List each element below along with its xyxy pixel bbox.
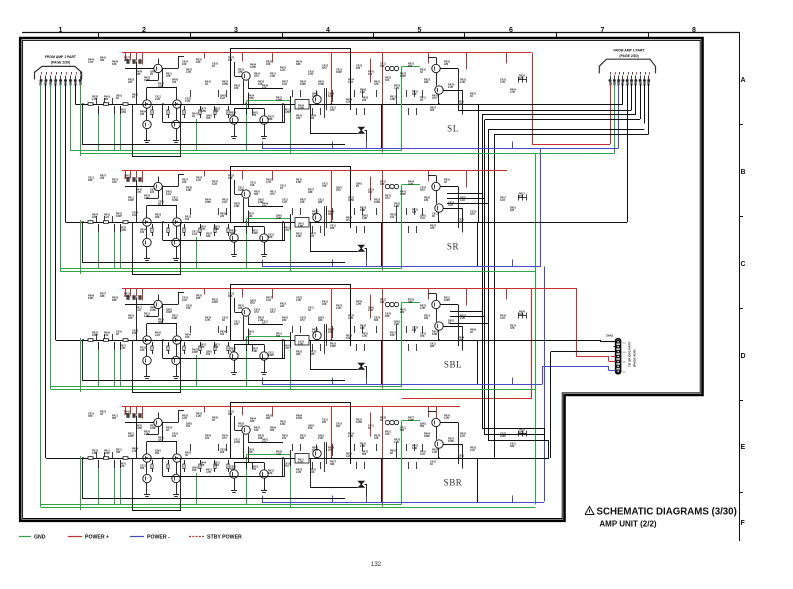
svg-text:1K: 1K bbox=[420, 71, 423, 74]
svg-text:33K: 33K bbox=[136, 73, 141, 76]
svg-text:47K: 47K bbox=[330, 109, 335, 112]
svg-text:1K: 1K bbox=[166, 429, 169, 432]
svg-text:47K: 47K bbox=[519, 77, 524, 80]
svg-text:3: 3 bbox=[234, 27, 238, 34]
svg-text:1K: 1K bbox=[248, 333, 251, 336]
svg-text:0.22: 0.22 bbox=[132, 214, 137, 217]
svg-text:220: 220 bbox=[424, 199, 429, 202]
svg-text:100P: 100P bbox=[424, 435, 430, 438]
svg-text:10K: 10K bbox=[186, 307, 191, 310]
svg-text:1K: 1K bbox=[222, 319, 225, 322]
svg-text:100: 100 bbox=[228, 59, 233, 62]
svg-text:6.8K: 6.8K bbox=[88, 297, 93, 300]
svg-text:10K: 10K bbox=[458, 103, 463, 106]
svg-text:100: 100 bbox=[262, 205, 267, 208]
svg-text:33K: 33K bbox=[519, 313, 524, 316]
svg-text:220: 220 bbox=[220, 215, 225, 218]
svg-text:33K: 33K bbox=[206, 235, 211, 238]
svg-text:1/2W: 1/2W bbox=[374, 201, 380, 204]
svg-text:33K: 33K bbox=[380, 183, 385, 186]
svg-text:47K: 47K bbox=[200, 464, 205, 467]
svg-text:4.7K: 4.7K bbox=[186, 71, 191, 74]
svg-text:47U: 47U bbox=[346, 219, 351, 222]
svg-text:CN602: CN602 bbox=[606, 335, 614, 337]
svg-text:100: 100 bbox=[282, 437, 287, 440]
svg-text:4.7K: 4.7K bbox=[182, 417, 187, 420]
svg-text:10K: 10K bbox=[385, 433, 390, 436]
svg-text:47U: 47U bbox=[270, 311, 275, 314]
svg-text:100: 100 bbox=[140, 231, 145, 234]
svg-text:560: 560 bbox=[112, 417, 117, 420]
svg-text:100P: 100P bbox=[212, 301, 218, 304]
svg-text:4.7K: 4.7K bbox=[282, 201, 287, 204]
svg-text:0.22: 0.22 bbox=[280, 69, 285, 72]
svg-text:47U: 47U bbox=[158, 439, 163, 442]
svg-text:SBR: SBR bbox=[444, 478, 463, 488]
svg-text:220: 220 bbox=[228, 413, 233, 416]
svg-text:0.22: 0.22 bbox=[238, 425, 243, 428]
svg-text:4.7K: 4.7K bbox=[185, 100, 190, 103]
svg-text:6.8K: 6.8K bbox=[412, 447, 417, 450]
svg-text:1K: 1K bbox=[158, 203, 161, 206]
svg-text:1K: 1K bbox=[150, 73, 153, 76]
svg-text:1/2W: 1/2W bbox=[298, 107, 304, 110]
svg-text:D: D bbox=[741, 353, 746, 360]
svg-text:1/2W: 1/2W bbox=[200, 110, 206, 113]
svg-text:1/2W: 1/2W bbox=[356, 421, 362, 424]
svg-text:100: 100 bbox=[385, 79, 390, 82]
svg-text:560: 560 bbox=[276, 335, 281, 338]
svg-text:33K: 33K bbox=[296, 353, 301, 356]
svg-text:33K: 33K bbox=[424, 81, 429, 84]
svg-text:220: 220 bbox=[124, 59, 129, 62]
svg-text:2.2K: 2.2K bbox=[368, 309, 373, 312]
svg-text:0.22: 0.22 bbox=[500, 199, 505, 202]
svg-text:33K: 33K bbox=[458, 339, 463, 342]
svg-text:F: F bbox=[741, 520, 746, 527]
svg-text:33K: 33K bbox=[230, 468, 235, 471]
svg-text:33K: 33K bbox=[250, 420, 255, 423]
svg-text:4.7K: 4.7K bbox=[200, 228, 205, 231]
svg-text:10K: 10K bbox=[308, 427, 313, 430]
svg-text:33K: 33K bbox=[330, 227, 335, 230]
svg-text:100: 100 bbox=[312, 331, 317, 334]
svg-text:6.8K: 6.8K bbox=[92, 452, 97, 455]
svg-text:1K: 1K bbox=[116, 97, 119, 100]
svg-text:100P: 100P bbox=[336, 71, 342, 74]
svg-text:33K: 33K bbox=[268, 118, 273, 121]
svg-text:560: 560 bbox=[104, 98, 109, 101]
svg-text:47K: 47K bbox=[238, 71, 243, 74]
svg-text:10K: 10K bbox=[120, 465, 125, 468]
svg-text:4.7K: 4.7K bbox=[136, 191, 141, 194]
svg-text:4.7K: 4.7K bbox=[284, 347, 289, 350]
svg-text:10K: 10K bbox=[185, 336, 190, 339]
svg-text:0.22: 0.22 bbox=[460, 199, 465, 202]
svg-text:2.2K: 2.2K bbox=[196, 415, 201, 418]
svg-text:100: 100 bbox=[214, 346, 219, 349]
svg-text:1K: 1K bbox=[280, 187, 283, 190]
svg-text:FROM AMP 1 PART: FROM AMP 1 PART bbox=[45, 55, 77, 59]
svg-text:1K: 1K bbox=[432, 215, 435, 218]
svg-text:4.7K: 4.7K bbox=[88, 61, 93, 64]
svg-text:47K: 47K bbox=[374, 83, 379, 86]
svg-text:100: 100 bbox=[310, 235, 315, 238]
svg-text:6.8K: 6.8K bbox=[328, 95, 333, 98]
svg-text:10K: 10K bbox=[380, 65, 385, 68]
svg-text:10K: 10K bbox=[104, 334, 109, 337]
svg-text:33K: 33K bbox=[196, 297, 201, 300]
svg-text:SBL: SBL bbox=[444, 360, 462, 370]
svg-text:POWER -: POWER - bbox=[147, 535, 170, 541]
svg-text:1/2W: 1/2W bbox=[222, 83, 228, 86]
svg-text:560: 560 bbox=[362, 453, 367, 456]
svg-text:220: 220 bbox=[400, 311, 405, 314]
svg-text:0.22: 0.22 bbox=[420, 453, 425, 456]
svg-text:1K: 1K bbox=[390, 452, 393, 455]
svg-text:220: 220 bbox=[362, 99, 367, 102]
svg-text:FROM AMP 1 PART: FROM AMP 1 PART bbox=[613, 48, 645, 52]
svg-text:10K: 10K bbox=[250, 184, 255, 187]
svg-text:2.2K: 2.2K bbox=[132, 450, 137, 453]
svg-text:220: 220 bbox=[220, 451, 225, 454]
svg-text:220: 220 bbox=[140, 113, 145, 116]
svg-text:1/2W: 1/2W bbox=[250, 66, 256, 69]
svg-text:560: 560 bbox=[270, 429, 275, 432]
svg-text:47U: 47U bbox=[254, 75, 259, 78]
svg-text:1/2W: 1/2W bbox=[348, 199, 354, 202]
svg-text:33K: 33K bbox=[380, 301, 385, 304]
svg-text:4.7K: 4.7K bbox=[356, 303, 361, 306]
svg-text:560: 560 bbox=[230, 232, 235, 235]
svg-text:10K: 10K bbox=[112, 63, 117, 66]
svg-text:10K: 10K bbox=[140, 349, 145, 352]
svg-text:47K: 47K bbox=[234, 323, 239, 326]
svg-text:0.22: 0.22 bbox=[136, 309, 141, 312]
svg-text:2.2K: 2.2K bbox=[92, 98, 97, 101]
svg-text:2.2K: 2.2K bbox=[336, 307, 341, 310]
svg-text:6.8K: 6.8K bbox=[298, 225, 303, 228]
svg-text:560: 560 bbox=[336, 425, 341, 428]
svg-text:100P: 100P bbox=[448, 440, 454, 443]
svg-text:33K: 33K bbox=[330, 463, 335, 466]
svg-text:0.22: 0.22 bbox=[420, 217, 425, 220]
svg-text:47U: 47U bbox=[385, 197, 390, 200]
svg-text:560: 560 bbox=[400, 429, 405, 432]
svg-text:1: 1 bbox=[59, 27, 63, 34]
svg-text:100P: 100P bbox=[252, 232, 258, 235]
svg-text:560: 560 bbox=[430, 109, 435, 112]
svg-text:10K: 10K bbox=[234, 87, 239, 90]
svg-text:47K: 47K bbox=[300, 201, 305, 204]
svg-text:0.22: 0.22 bbox=[166, 193, 171, 196]
svg-text:C: C bbox=[741, 261, 746, 268]
svg-text:0.22: 0.22 bbox=[460, 435, 465, 438]
svg-text:10K: 10K bbox=[206, 117, 211, 120]
svg-text:A: A bbox=[741, 77, 746, 84]
svg-text:10K: 10K bbox=[322, 303, 327, 306]
svg-text:0.22: 0.22 bbox=[158, 85, 163, 88]
svg-text:2.2K: 2.2K bbox=[276, 217, 281, 220]
svg-text:47K: 47K bbox=[296, 117, 301, 120]
svg-text:560: 560 bbox=[310, 117, 315, 120]
svg-text:0.22: 0.22 bbox=[212, 183, 217, 186]
svg-text:47K: 47K bbox=[88, 415, 93, 418]
svg-text:47U: 47U bbox=[124, 413, 129, 416]
svg-text:7: 7 bbox=[601, 27, 605, 34]
svg-text:560: 560 bbox=[408, 65, 413, 68]
svg-text:560: 560 bbox=[254, 193, 259, 196]
svg-text:132: 132 bbox=[371, 562, 382, 568]
svg-text:0.22: 0.22 bbox=[222, 201, 227, 204]
svg-text:100: 100 bbox=[368, 73, 373, 76]
svg-text:10K: 10K bbox=[360, 327, 365, 330]
svg-text:10K: 10K bbox=[192, 469, 197, 472]
svg-text:1/2W: 1/2W bbox=[276, 99, 282, 102]
svg-text:6.8K: 6.8K bbox=[214, 228, 219, 231]
svg-text:6.8K: 6.8K bbox=[124, 295, 129, 298]
svg-text:0.22: 0.22 bbox=[196, 179, 201, 182]
svg-text:100: 100 bbox=[412, 211, 417, 214]
svg-text:33K: 33K bbox=[155, 216, 160, 219]
svg-text:100: 100 bbox=[519, 195, 524, 198]
svg-text:33K: 33K bbox=[385, 315, 390, 318]
svg-text:2.2K: 2.2K bbox=[432, 451, 437, 454]
svg-text:6.8K: 6.8K bbox=[296, 235, 301, 238]
svg-text:33K: 33K bbox=[318, 319, 323, 322]
svg-text:1/2W: 1/2W bbox=[120, 111, 126, 114]
svg-text:1/2W: 1/2W bbox=[234, 441, 240, 444]
svg-text:47K: 47K bbox=[328, 331, 333, 334]
svg-text:10K: 10K bbox=[132, 332, 137, 335]
svg-text:2.2K: 2.2K bbox=[348, 435, 353, 438]
svg-text:2.2K: 2.2K bbox=[448, 86, 453, 89]
svg-text:0.22: 0.22 bbox=[346, 455, 351, 458]
svg-text:100P: 100P bbox=[330, 345, 336, 348]
svg-text:100P: 100P bbox=[500, 435, 506, 438]
svg-text:47K: 47K bbox=[322, 185, 327, 188]
svg-text:0.22: 0.22 bbox=[220, 97, 225, 100]
svg-text:47K: 47K bbox=[510, 327, 515, 330]
svg-text:4.7K: 4.7K bbox=[284, 229, 289, 232]
svg-text:1K: 1K bbox=[444, 181, 447, 184]
svg-text:100: 100 bbox=[205, 437, 210, 440]
svg-text:33K: 33K bbox=[430, 345, 435, 348]
svg-text:1/2W: 1/2W bbox=[296, 417, 302, 420]
svg-text:1/2W: 1/2W bbox=[248, 97, 254, 100]
svg-text:(PAGE 2/30): (PAGE 2/30) bbox=[51, 61, 70, 65]
svg-text:E: E bbox=[741, 444, 746, 451]
svg-text:220: 220 bbox=[356, 67, 361, 70]
svg-text:100P: 100P bbox=[128, 435, 134, 438]
svg-text:100P: 100P bbox=[150, 427, 156, 430]
svg-text:4.7K: 4.7K bbox=[298, 461, 303, 464]
svg-text:33K: 33K bbox=[310, 353, 315, 356]
svg-text:220: 220 bbox=[322, 421, 327, 424]
svg-text:0.22: 0.22 bbox=[182, 299, 187, 302]
svg-text:47U: 47U bbox=[300, 319, 305, 322]
svg-text:0.22: 0.22 bbox=[360, 91, 365, 94]
svg-text:100: 100 bbox=[346, 337, 351, 340]
svg-text:100P: 100P bbox=[128, 199, 134, 202]
svg-text:100: 100 bbox=[252, 468, 257, 471]
svg-text:100P: 100P bbox=[300, 83, 306, 86]
svg-text:100: 100 bbox=[172, 81, 177, 84]
svg-text:100P: 100P bbox=[268, 354, 274, 357]
svg-text:1K: 1K bbox=[212, 65, 215, 68]
svg-text:1/2W: 1/2W bbox=[124, 177, 130, 180]
svg-text:6.8K: 6.8K bbox=[432, 333, 437, 336]
svg-text:6.8K: 6.8K bbox=[172, 317, 177, 320]
svg-text:2.2K: 2.2K bbox=[394, 441, 399, 444]
svg-text:100P: 100P bbox=[116, 215, 122, 218]
svg-text:1K: 1K bbox=[308, 309, 311, 312]
svg-text:5: 5 bbox=[418, 27, 422, 34]
svg-text:1K: 1K bbox=[132, 96, 135, 99]
svg-text:0.22: 0.22 bbox=[500, 317, 505, 320]
svg-text:1K: 1K bbox=[116, 333, 119, 336]
svg-text:1/2W: 1/2W bbox=[144, 79, 150, 82]
svg-text:1K: 1K bbox=[356, 185, 359, 188]
svg-text:47U: 47U bbox=[254, 311, 259, 314]
svg-text:10K: 10K bbox=[374, 437, 379, 440]
svg-text:47U: 47U bbox=[519, 431, 524, 434]
svg-text:2.2K: 2.2K bbox=[296, 471, 301, 474]
svg-text:STBY POWER: STBY POWER bbox=[207, 535, 242, 541]
svg-text:0.22: 0.22 bbox=[214, 464, 219, 467]
svg-text:47U: 47U bbox=[432, 97, 437, 100]
svg-text:1K: 1K bbox=[430, 463, 433, 466]
svg-text:1K: 1K bbox=[448, 322, 451, 325]
svg-text:6.8K: 6.8K bbox=[234, 205, 239, 208]
svg-text:2.2K: 2.2K bbox=[460, 317, 465, 320]
svg-text:1/2W: 1/2W bbox=[136, 427, 142, 430]
svg-text:100: 100 bbox=[172, 435, 177, 438]
svg-text:B: B bbox=[741, 169, 746, 176]
svg-text:560: 560 bbox=[328, 213, 333, 216]
svg-text:560: 560 bbox=[158, 321, 163, 324]
svg-text:47K: 47K bbox=[200, 346, 205, 349]
svg-text:1K: 1K bbox=[420, 99, 423, 102]
svg-text:560: 560 bbox=[420, 425, 425, 428]
svg-text:100: 100 bbox=[412, 329, 417, 332]
svg-text:1K: 1K bbox=[380, 419, 383, 422]
svg-text:0.22: 0.22 bbox=[348, 81, 353, 84]
svg-text:220: 220 bbox=[150, 191, 155, 194]
svg-text:220: 220 bbox=[252, 114, 257, 117]
svg-text:AMP UNIT (2/2): AMP UNIT (2/2) bbox=[599, 520, 657, 529]
svg-text:33K: 33K bbox=[282, 319, 287, 322]
svg-text:6.8K: 6.8K bbox=[394, 205, 399, 208]
svg-text:10K: 10K bbox=[266, 63, 271, 66]
svg-text:47U: 47U bbox=[284, 465, 289, 468]
svg-text:2.2K: 2.2K bbox=[360, 445, 365, 448]
svg-text:10K: 10K bbox=[248, 451, 253, 454]
svg-text:33K: 33K bbox=[88, 179, 93, 182]
svg-text:33K: 33K bbox=[308, 191, 313, 194]
svg-text:2.2K: 2.2K bbox=[408, 183, 413, 186]
svg-text:4.7K: 4.7K bbox=[205, 319, 210, 322]
svg-text:100: 100 bbox=[220, 333, 225, 336]
svg-text:1/2W: 1/2W bbox=[318, 83, 324, 86]
svg-text:560: 560 bbox=[266, 417, 271, 420]
svg-text:SL: SL bbox=[447, 124, 459, 134]
svg-text:4.7K: 4.7K bbox=[144, 197, 149, 200]
svg-text:10K: 10K bbox=[268, 472, 273, 475]
svg-text:0.22: 0.22 bbox=[470, 449, 475, 452]
svg-text:100P: 100P bbox=[205, 201, 211, 204]
svg-text:4.7K: 4.7K bbox=[510, 91, 515, 94]
svg-text:10K: 10K bbox=[230, 114, 235, 117]
svg-text:10K: 10K bbox=[112, 181, 117, 184]
svg-text:47U: 47U bbox=[420, 189, 425, 192]
svg-text:1/2W: 1/2W bbox=[120, 229, 126, 232]
svg-text:6: 6 bbox=[509, 27, 513, 34]
svg-text:47U: 47U bbox=[222, 437, 227, 440]
svg-text:6.8K: 6.8K bbox=[362, 217, 367, 220]
svg-text:10K: 10K bbox=[196, 61, 201, 64]
svg-text:33K: 33K bbox=[408, 301, 413, 304]
svg-text:2.2K: 2.2K bbox=[460, 81, 465, 84]
svg-text:6.8K: 6.8K bbox=[230, 350, 235, 353]
svg-text:(PAGE 4/30): (PAGE 4/30) bbox=[633, 350, 637, 367]
svg-text:1K: 1K bbox=[470, 331, 473, 334]
svg-text:47U: 47U bbox=[470, 213, 475, 216]
svg-text:0.22: 0.22 bbox=[276, 453, 281, 456]
svg-text:560: 560 bbox=[300, 437, 305, 440]
svg-text:100: 100 bbox=[185, 218, 190, 221]
svg-text:100P: 100P bbox=[104, 452, 110, 455]
svg-text:4.7K: 4.7K bbox=[362, 335, 367, 338]
svg-text:33K: 33K bbox=[248, 215, 253, 218]
svg-text:0.22: 0.22 bbox=[192, 233, 197, 236]
svg-text:10K: 10K bbox=[310, 471, 315, 474]
svg-text:4.7K: 4.7K bbox=[206, 471, 211, 474]
svg-text:10K: 10K bbox=[238, 307, 243, 310]
svg-text:1/2W: 1/2W bbox=[238, 189, 244, 192]
svg-text:2: 2 bbox=[142, 27, 146, 34]
svg-text:2.2K: 2.2K bbox=[144, 433, 149, 436]
svg-text:100: 100 bbox=[390, 216, 395, 219]
svg-text:GND: GND bbox=[34, 535, 46, 541]
svg-text:6.8K: 6.8K bbox=[280, 423, 285, 426]
svg-text:2.2K: 2.2K bbox=[120, 347, 125, 350]
svg-text:1K: 1K bbox=[212, 419, 215, 422]
svg-text:0.22: 0.22 bbox=[282, 83, 287, 86]
svg-text:4: 4 bbox=[326, 27, 330, 34]
svg-text:6.8K: 6.8K bbox=[296, 181, 301, 184]
svg-text:1/2W: 1/2W bbox=[312, 449, 318, 452]
svg-text:560: 560 bbox=[116, 451, 121, 454]
svg-text:47U: 47U bbox=[336, 189, 341, 192]
svg-text:220: 220 bbox=[280, 305, 285, 308]
svg-text:4.7K: 4.7K bbox=[348, 317, 353, 320]
svg-text:10K: 10K bbox=[390, 334, 395, 337]
svg-text:4.7K: 4.7K bbox=[346, 101, 351, 104]
svg-text:33K: 33K bbox=[510, 445, 515, 448]
svg-text:1K: 1K bbox=[262, 323, 265, 326]
svg-text:2.2K: 2.2K bbox=[296, 299, 301, 302]
svg-text:33K: 33K bbox=[268, 236, 273, 239]
svg-text:SR: SR bbox=[447, 242, 459, 252]
svg-text:6.8K: 6.8K bbox=[390, 98, 395, 101]
svg-text:33K: 33K bbox=[112, 299, 117, 302]
svg-text:47U: 47U bbox=[270, 193, 275, 196]
svg-text:SCHEMATIC DIAGRAMS (3/30): SCHEMATIC DIAGRAMS (3/30) bbox=[597, 507, 737, 518]
svg-text:47K: 47K bbox=[328, 449, 333, 452]
svg-text:6.8K: 6.8K bbox=[186, 189, 191, 192]
svg-text:6.8K: 6.8K bbox=[252, 350, 257, 353]
